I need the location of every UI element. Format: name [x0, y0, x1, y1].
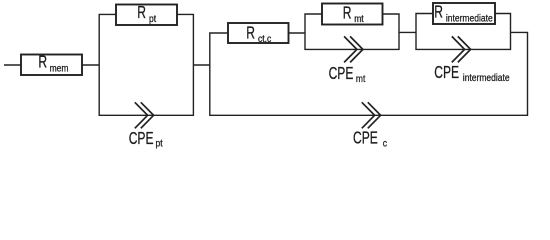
- label CPE_mt: [329, 64, 366, 84]
- capacitor CPE_intermediate: [452, 36, 471, 62]
- svg-text:R: R: [137, 3, 146, 23]
- label CPE_intermediate: [434, 63, 509, 83]
- resistor R_ct,c: [228, 23, 289, 43]
- svg-text:mem: mem: [50, 63, 69, 74]
- capacitor CPE_mt: [344, 36, 363, 62]
- svg-text:R: R: [38, 53, 47, 73]
- label R_ct,c: [246, 23, 271, 44]
- wire input lead: [4, 64, 21, 66]
- wire loop1 outline (parallel R_pt / CPE_pt): [99, 14, 193, 115]
- label R_mem: [38, 53, 68, 74]
- label R_pt: [137, 3, 156, 24]
- wire R_mem to loop1: [82, 64, 99, 66]
- wire R_ct,c to loop2a: [289, 32, 306, 34]
- label R_intermediate: [434, 2, 492, 23]
- svg-text:pt: pt: [156, 138, 163, 149]
- svg-text:CPE: CPE: [353, 128, 378, 148]
- wire loop2b outline (parallel R_intermediate / CPE_intermediate): [416, 14, 511, 50]
- capacitor CPE_c: [362, 102, 381, 128]
- svg-text:c: c: [383, 138, 388, 149]
- svg-text:mt: mt: [354, 14, 364, 25]
- svg-text:intermediate: intermediate: [446, 13, 493, 24]
- svg-text:pt: pt: [149, 13, 156, 24]
- label R_mt: [343, 3, 364, 24]
- svg-text:R: R: [434, 2, 443, 22]
- resistor R_mem: [21, 55, 82, 76]
- svg-text:mt: mt: [356, 73, 366, 84]
- capacitor CPE_pt: [135, 102, 154, 128]
- resistor R_pt: [116, 5, 177, 26]
- svg-text:R: R: [343, 3, 352, 23]
- resistor R_mt: [322, 4, 383, 25]
- svg-text:intermediate: intermediate: [463, 72, 510, 83]
- label CPE_pt: [129, 129, 163, 149]
- svg-text:ct,c: ct,c: [258, 33, 272, 44]
- svg-text:R: R: [246, 23, 255, 43]
- wire loop2a outline (parallel R_mt / CPE_mt): [305, 14, 399, 49]
- svg-text:CPE: CPE: [434, 63, 459, 83]
- resistor R_intermediate: [433, 3, 495, 24]
- label CPE_c: [353, 128, 387, 148]
- wire outer loop outline: [210, 32, 528, 115]
- svg-text:CPE: CPE: [329, 64, 354, 84]
- svg-text:CPE: CPE: [129, 129, 154, 149]
- wire loop2a to loop2b: [399, 31, 416, 33]
- wire loop1 to outer loop: [193, 64, 209, 66]
